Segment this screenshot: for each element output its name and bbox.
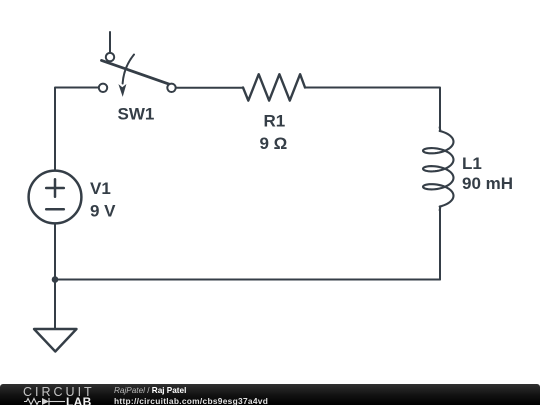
wire <box>55 88 99 171</box>
wire <box>54 280 56 330</box>
footer author <box>114 387 186 395</box>
svg-text:9 V: 9 V <box>90 201 116 220</box>
resistor R1 <box>243 74 305 100</box>
ground <box>34 329 77 352</box>
V1 minus sign <box>46 208 64 211</box>
voltage source V1 <box>29 171 82 224</box>
V1 plus sign <box>46 187 64 190</box>
inductor L1 <box>423 127 454 210</box>
svg-text:L1: L1 <box>462 154 482 173</box>
wire <box>54 224 56 280</box>
switch SW1 stub <box>109 32 111 53</box>
junction node <box>52 276 59 283</box>
svg-text:9 Ω: 9 Ω <box>260 134 288 153</box>
switch SW1 arrow arc <box>123 55 134 84</box>
switch SW1 terminal top <box>106 53 114 61</box>
wire <box>55 279 440 281</box>
wire <box>176 87 243 89</box>
svg-text:SW1: SW1 <box>118 104 155 123</box>
switch SW1 terminal left <box>99 84 107 92</box>
footer url <box>114 397 268 405</box>
wire <box>439 207 441 280</box>
wire <box>305 88 440 132</box>
switch SW1 terminal right <box>167 84 175 92</box>
switch SW1 arrowhead <box>118 84 126 97</box>
CircuitLab logo <box>23 386 95 399</box>
svg-text:V1: V1 <box>90 179 111 198</box>
svg-text:R1: R1 <box>264 112 286 131</box>
svg-text:90 mH: 90 mH <box>462 174 513 193</box>
footer bar <box>0 384 540 405</box>
switch SW1 lever <box>102 60 171 84</box>
